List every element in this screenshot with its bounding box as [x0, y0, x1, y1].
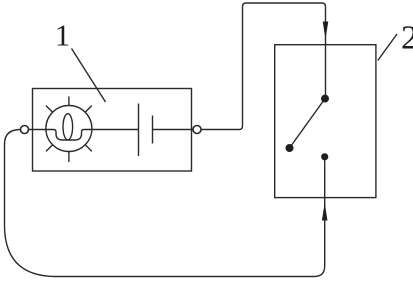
svg-text:1: 1	[55, 18, 71, 53]
svg-text:2: 2	[401, 20, 413, 57]
